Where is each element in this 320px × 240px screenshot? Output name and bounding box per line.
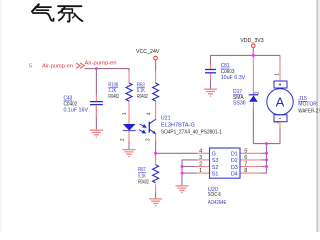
pin R67 bottom [155, 184, 157, 192]
svg-text:A: A [276, 95, 285, 110]
junction (266.5,166.5) [265, 165, 268, 168]
pin R108 top [128, 71, 130, 83]
pin U20 2 [197, 166, 210, 168]
svg-text:6: 6 [244, 155, 247, 161]
wire C81 top [210, 55, 212, 64]
pin R63 top [155, 70, 157, 83]
pin U20 3 [197, 159, 210, 161]
svg-text:S1: S1 [212, 171, 219, 177]
pin C81 bottom [210, 73, 212, 80]
junction (266.5,143.6) [265, 142, 268, 145]
pin U20 5 [240, 152, 262, 154]
pin U20 7 [240, 166, 262, 168]
pin R108 bottom / U21 pin1 [128, 100, 130, 124]
diode D17 [233, 89, 261, 106]
svg-text:R0402: R0402 [138, 179, 149, 185]
wire S2 from U20 [182, 166, 197, 168]
svg-text:Air-pump-en: Air-pump-en [42, 63, 73, 69]
wire D3 [261, 166, 267, 168]
title 气泵 (drawn as strokes) [32, 4, 82, 21]
svg-text:Air-pump-en: Air-pump-en [85, 60, 117, 66]
svg-text:WAFER-2.54: WAFER-2.54 [298, 108, 320, 114]
svg-text:5: 5 [29, 63, 32, 69]
svg-text:S2: S2 [212, 165, 219, 171]
capacitor C81 [205, 63, 246, 81]
wire C81 to ground [210, 79, 212, 89]
svg-text:VDD_3V3: VDD_3V3 [240, 38, 263, 44]
svg-text:D3: D3 [231, 165, 238, 171]
svg-text:VCC_24V: VCC_24V [136, 49, 160, 55]
U20 MOSFET array box [199, 148, 247, 206]
svg-text:4: 4 [199, 148, 202, 154]
wire S3 from U20 to vertical [182, 160, 197, 186]
svg-text:D4: D4 [231, 171, 238, 177]
junction (182,166.5) [181, 165, 184, 168]
wire C43 to ground [95, 106, 97, 131]
pin C43 top [95, 95, 97, 102]
junction (253.3,55.4) [252, 54, 255, 57]
component pins (red) [96, 57, 280, 193]
svg-text:R0402: R0402 [137, 94, 148, 100]
svg-text:D2: D2 [231, 158, 238, 164]
optocoupler U21 phototransistor [146, 112, 156, 141]
wire D1 [261, 152, 267, 154]
svg-text:G: G [212, 152, 216, 158]
wire D4 [261, 172, 267, 174]
svg-text:C0402: C0402 [64, 101, 78, 107]
pin D17 cathode [252, 57, 254, 95]
svg-text:2: 2 [199, 162, 202, 168]
pin U21 pin2 [128, 131, 130, 142]
wire C43 top branch [95, 69, 97, 95]
svg-text:7: 7 [244, 162, 247, 168]
pin C43 bottom [95, 106, 97, 118]
port Air-pump-en (sheet entry) [76, 63, 84, 68]
svg-text:3: 3 [199, 155, 202, 161]
ground (C43) [90, 130, 103, 137]
resistor R63 [137, 82, 159, 101]
wire gate: junction to U20 pin G [156, 152, 197, 154]
wire Air-pump-en horizontal [85, 69, 129, 72]
power port VDD_3V3 [240, 38, 263, 48]
svg-text:SOIC-8: SOIC-8 [208, 192, 221, 198]
svg-text:SO4P1_27X4_40_PS2801-1: SO4P1_27X4_40_PS2801-1 [161, 130, 222, 136]
pin J15 2 [279, 122, 281, 129]
junction (96.4,68.6) [95, 67, 98, 70]
pin R63 bottom / U21 pin4 [155, 100, 157, 119]
svg-text:2.2K: 2.2K [108, 88, 116, 94]
page edge right [318, 0, 320, 232]
junction (155.6,153.3) [154, 152, 157, 155]
wire D2 [261, 159, 267, 161]
ground (U21 LED) [123, 150, 136, 157]
pin U20 4 [197, 152, 210, 154]
svg-text:5.1K: 5.1K [138, 173, 146, 179]
svg-text:R67: R67 [138, 167, 146, 173]
svg-text:3: 3 [146, 138, 152, 141]
svg-text:2: 2 [120, 138, 126, 141]
svg-text:5.1K: 5.1K [137, 88, 145, 94]
resistor R67 [138, 165, 159, 186]
svg-text:R0402: R0402 [108, 94, 119, 100]
svg-text:EL3H7BTA-G: EL3H7BTA-G [161, 122, 195, 128]
svg-text:S3: S3 [212, 158, 219, 164]
pin D17 anode [252, 102, 254, 109]
pin U20 1 [197, 172, 210, 174]
svg-text:SS36: SS36 [233, 100, 246, 106]
svg-text:2: 2 [255, 91, 261, 94]
svg-text:2: 2 [275, 121, 281, 124]
svg-text:8: 8 [244, 168, 247, 174]
pin R67 top [155, 156, 157, 165]
svg-text:1: 1 [275, 73, 281, 76]
wire opto emitter down through junction to R67 [155, 141, 157, 158]
capacitor C43 [64, 96, 103, 114]
junction (266.5,153.3) [265, 152, 268, 155]
wire motor bottom to bus [253, 108, 280, 144]
wire VCC_24V to R63 [155, 60, 157, 71]
svg-text:4: 4 [147, 112, 153, 115]
ground (R67) [149, 199, 162, 206]
ground (C81) [204, 89, 217, 96]
svg-text:5: 5 [244, 148, 247, 154]
power port VCC_24V [136, 49, 160, 60]
svg-text:1: 1 [122, 112, 128, 115]
svg-text:AO4264E: AO4264E [208, 200, 227, 206]
svg-text:MOTOR: MOTOR [298, 102, 317, 108]
wires (net) [85, 48, 280, 199]
resistor R108 [108, 82, 132, 101]
pin U21 pin3 [155, 134, 157, 142]
wire LED cathode to ground [128, 141, 130, 150]
pin C81 top [210, 64, 212, 70]
wire S1 from U20 [182, 172, 197, 174]
pin J15 1 [279, 57, 281, 81]
svg-text:1: 1 [199, 168, 202, 174]
svg-text:U21: U21 [161, 115, 171, 121]
pin U20 6 [240, 159, 262, 161]
svg-text:0.1uF 16V: 0.1uF 16V [64, 108, 89, 114]
wire motor top [279, 55, 281, 57]
wire R67 to ground [155, 192, 157, 199]
wire VDD rail [211, 54, 281, 56]
svg-text:10uF 6.3V: 10uF 6.3V [221, 75, 246, 81]
motor J15 [267, 73, 320, 124]
junction (182,173.1) [181, 172, 184, 175]
junction (266.5,159.9) [265, 158, 268, 161]
wire drain bus vertical [266, 144, 268, 174]
ground (U20 sources) [176, 186, 189, 193]
svg-text:D1: D1 [231, 152, 238, 158]
pin U20 8 [240, 172, 262, 174]
wire VDD stem down to D17 [252, 48, 254, 58]
optocoupler U21 LED [120, 112, 146, 141]
light arrows [139, 124, 146, 133]
